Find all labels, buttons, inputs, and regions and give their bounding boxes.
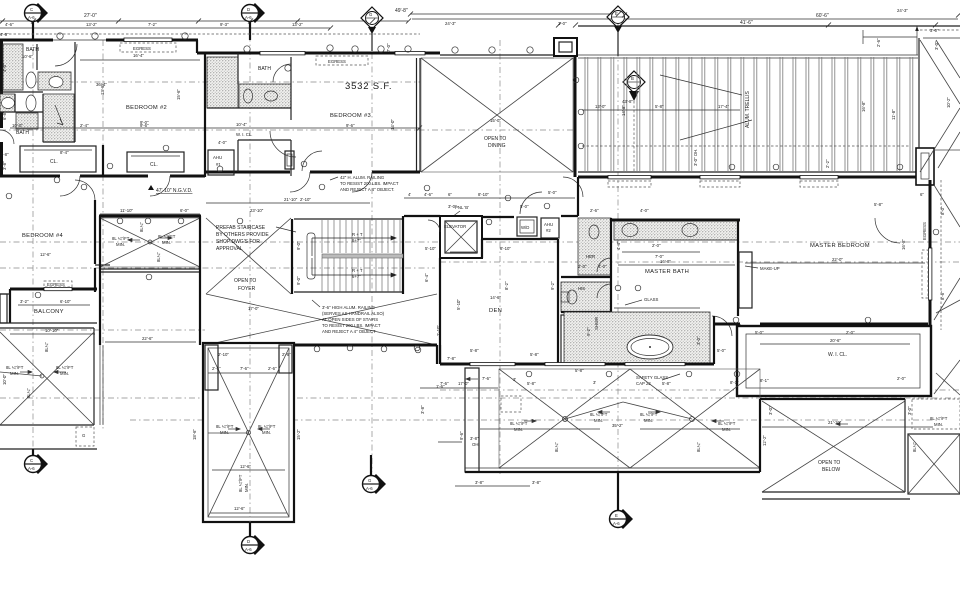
svg-text:3'-8": 3'-8" [420,405,425,414]
svg-text:3': 3' [593,380,596,385]
railing note (3'-6") [312,300,385,334]
svg-text:8L¼": 8L¼" [554,442,559,452]
svg-text:PREFAB STAIRCASE: PREFAB STAIRCASE [216,225,266,231]
dimension tick marks top [0,12,960,31]
terrace roof band X (cell 1) [499,369,760,468]
her/his dims [578,241,621,269]
svg-text:A-6: A-6 [613,521,620,526]
top exterior wall right portion (y=53) [197,52,554,59]
svg-text:3'-0": 3'-0" [558,21,567,26]
svg-text:8'-2": 8'-2" [504,281,509,290]
svg-text:2'-0": 2'-0" [897,376,906,381]
svg-text:16'-4": 16'-4" [133,53,144,58]
egress window dashed box (bedroom3) [316,56,368,65]
svg-text:9'-3": 9'-3" [220,22,229,27]
svg-text:2'-6": 2'-6" [212,366,221,371]
svg-text:36'-4": 36'-4" [96,82,107,87]
svg-text:OPEN TO: OPEN TO [484,136,506,142]
section marker diamond B (in trellis) [623,71,645,172]
door arc bath lower-left [0,130,14,144]
svg-text:2'-2": 2'-2" [825,159,830,168]
svg-text:MIN.: MIN. [934,422,943,427]
master bath floor hatch + tub [564,312,710,364]
svg-text:EGRESS: EGRESS [328,59,346,64]
svg-text:MIN.: MIN. [220,430,229,435]
svg-text:16'-8": 16'-8" [660,259,671,264]
svg-text:6'-8": 6'-8" [2,111,7,120]
svg-text:R + T: R + T [352,232,363,237]
elevator [428,216,482,258]
svg-text:4'-6": 4'-6" [5,22,14,27]
svg-text:TO RESIST 200 LBS. IMPACT: TO RESIST 200 LBS. IMPACT [340,181,399,186]
svg-text:W. I. CL.: W. I. CL. [236,132,252,137]
section marker C top [25,3,49,40]
trellis frame [578,55,918,172]
svg-text:15'-6": 15'-6" [176,89,181,100]
svg-text:41'-6": 41'-6" [740,20,753,26]
mid X-box roof over entry [99,216,201,272]
svg-text:R + T: R + T [352,268,363,273]
svg-text:EGRESS: EGRESS [133,46,151,51]
svg-text:5'-0": 5'-0" [520,204,529,209]
svg-text:8L¼": 8L¼" [912,442,917,452]
svg-text:A-6: A-6 [245,15,252,20]
left margin dims [0,32,9,385]
master bedroom door arc [875,218,900,243]
svg-text:MIN.: MIN. [10,371,19,376]
W/D [517,217,537,236]
svg-text:22'-6": 22'-6" [142,336,153,341]
svg-text:5'-0": 5'-0" [0,291,1,300]
svg-text:11'-10": 11'-10" [120,208,133,213]
svg-text:8L ¼"/FT: 8L ¼"/FT [238,474,243,492]
svg-text:20'-6": 20'-6" [830,338,841,343]
svg-text:13'-2": 13'-2" [86,22,97,27]
svg-text:APPROVAL: APPROVAL [216,246,243,252]
section marker E bottom [610,473,634,529]
svg-text:MASTER BEDROOM: MASTER BEDROOM [810,243,870,249]
svg-text:43'-8": 43'-8" [622,99,633,104]
svg-text:MIN.: MIN. [594,418,603,423]
svg-text:BATH: BATH [16,130,29,136]
svg-text:10'-10": 10'-10" [45,328,59,333]
svg-text:5'-10": 5'-10" [456,299,461,310]
dining right wall [574,57,577,177]
svg-text:BALCONY: BALCONY [34,309,64,315]
OPEN TO DINING X box [386,43,573,172]
right edge dims [920,28,951,330]
corridor dims row [404,190,575,198]
svg-text:8'-10": 8'-10" [478,192,489,197]
svg-text:MIN.: MIN. [116,242,125,247]
svg-text:8L¼": 8L¼" [26,388,31,398]
closet 2 [127,145,184,172]
svg-text:2'-0": 2'-0" [578,264,587,269]
trellis slats [585,57,913,172]
svg-text:4'-0": 4'-0" [218,140,227,145]
svg-text:13'-2": 13'-2" [292,22,303,27]
svg-text:5'-8": 5'-8" [470,348,479,353]
svg-text:SHWR: SHWR [594,317,599,330]
svg-text:1'-6": 1'-6" [436,384,445,389]
svg-text:12'-2": 12'-2" [762,435,767,446]
OPEN TO BELOW box [760,399,933,499]
svg-text:9'-2": 9'-2" [550,281,555,290]
section marker G bottom [363,455,387,494]
svg-text:9'-6": 9'-6" [459,431,464,440]
middle bath hatched [207,57,291,108]
HIS bath [561,282,611,312]
right mid diagonals (cut trellis) [934,150,960,395]
svg-text:3'-8": 3'-8" [475,480,484,485]
bath-closet door [712,316,732,336]
svg-text:8L¼": 8L¼" [156,252,161,262]
svg-text:8L ¼"/FT: 8L ¼"/FT [930,416,948,421]
svg-text:8L¼": 8L¼" [696,442,701,452]
door arc middle bath [273,64,291,82]
svg-text:22'-0": 22'-0" [832,257,843,262]
left exterior wall [0,40,3,128]
svg-text:D: D [247,7,250,12]
svg-text:9'-2": 9'-2" [586,327,591,336]
svg-text:2'-10": 2'-10" [300,197,311,202]
svg-text:23'-10": 23'-10" [250,208,264,213]
svg-text:AND REJECT A 4" OBJECT: AND REJECT A 4" OBJECT [322,329,376,334]
corridor top wall [404,215,440,217]
svg-text:5'-8": 5'-8" [874,202,883,207]
svg-text:AT OPEN SIDES OF STAIRS: AT OPEN SIDES OF STAIRS [322,317,378,322]
assorted circled tags [6,161,871,353]
svg-text:5'-0": 5'-0" [548,190,557,195]
svg-text:5'-0": 5'-0" [755,330,764,335]
svg-text:8L¼": 8L¼" [139,222,144,232]
master entry wall [577,177,579,216]
svg-text:W/D: W/D [521,225,529,230]
section marker diamond G top [361,7,383,51]
svg-text:A-6: A-6 [28,466,35,471]
svg-text:BY OTHERS PROVIDE: BY OTHERS PROVIDE [216,232,269,238]
svg-text:HIS: HIS [578,286,585,291]
svg-text:8'-10": 8'-10" [500,246,511,251]
svg-text:OPEN TO: OPEN TO [234,278,256,284]
ALUM TRELLIS label with leaders [660,75,752,140]
svg-text:2'-6": 2'-6" [876,38,881,47]
svg-text:MIN.: MIN. [244,483,249,492]
svg-text:FOYER: FOYER [238,286,256,292]
svg-text:17'-4": 17'-4" [718,104,729,109]
svg-text:5'-8": 5'-8" [527,381,536,386]
svg-text:MASTER BATH: MASTER BATH [645,269,689,275]
svg-text:BEDROOM #2: BEDROOM #2 [126,105,167,111]
top-right corner column detail [916,148,934,185]
den right wall [557,239,559,364]
MASTER BEDROOM [745,239,925,263]
svg-text:C: C [30,7,33,12]
svg-text:4'-4": 4'-4" [616,241,621,250]
svg-text:BEDROOM #4: BEDROOM #4 [22,233,63,239]
svg-text:6": 6" [920,192,924,197]
svg-text:AHU: AHU [213,155,222,160]
svg-text:8L ¼"/FT: 8L ¼"/FT [112,236,130,241]
section marker diamond E top [607,6,629,56]
svg-text:ALUM. TRELLIS: ALUM. TRELLIS [745,90,751,128]
G dashed box [0,427,97,449]
bottom dims under tall X [210,506,287,513]
svg-text:15'-0": 15'-0" [490,118,501,123]
svg-text:OH.: OH. [472,442,480,447]
svg-text:10'-2": 10'-2" [946,97,951,108]
master bedroom south wall / WICL top [714,324,928,344]
svg-text:47'-10" N.G.V.D.: 47'-10" N.G.V.D. [156,188,192,194]
svg-text:9'-0": 9'-0" [140,120,149,125]
AHU #2 [541,218,559,238]
middle bath walls [207,53,291,176]
svg-text:16'-8": 16'-8" [861,101,866,112]
svg-text:2'-6": 2'-6" [590,208,599,213]
svg-text:8L ¼"/FT: 8L ¼"/FT [510,421,528,426]
small shaft right of WICL [285,151,294,169]
svg-text:12'-6": 12'-6" [40,252,51,257]
svg-text:13'-0": 13'-0" [595,104,606,109]
svg-text:8L ¼"/FT: 8L ¼"/FT [718,421,736,426]
closet 1 [20,146,96,172]
svg-text:3'-0" OH.: 3'-0" OH. [693,149,698,166]
tiny arrows for slope labels [20,236,848,430]
svg-text:3'-2": 3'-2" [20,299,29,304]
svg-text:3'-6" HIGH ALUM. RAILING: 3'-6" HIGH ALUM. RAILING [322,305,376,310]
left bath cluster hatched walls [0,44,74,142]
svg-text:24'-3": 24'-3" [445,21,456,26]
svg-text:D: D [247,539,250,544]
corridor door arcs [520,177,583,214]
svg-text:3'-8": 3'-8" [0,152,9,157]
svg-text:A-6: A-6 [366,486,373,491]
svg-text:3'-0": 3'-0" [696,336,701,345]
svg-text:8L ¼"/FT: 8L ¼"/FT [640,412,658,417]
bench [561,315,575,363]
tall bottom X court [192,343,301,522]
hall bottom wall with posts [237,345,437,352]
svg-text:AND REJECT A 4" OBJECT.: AND REJECT A 4" OBJECT. [340,187,394,192]
svg-text:7'-2": 7'-2" [148,22,157,27]
den left wall [439,258,441,330]
prefab staircase note [216,225,296,252]
svg-text:9'-6": 9'-6" [346,123,355,128]
svg-text:HER: HER [586,254,595,259]
svg-text:8'-4": 8'-4" [60,150,69,155]
extra interior dim clusters [100,197,912,486]
bottom wall of top-left block [0,172,420,176]
svg-text:9'-0": 9'-0" [296,241,301,250]
svg-text:#2: #2 [546,228,551,233]
svg-text:8L ¼"/FT: 8L ¼"/FT [6,365,24,370]
svg-text:4': 4' [408,192,411,197]
svg-text:17'-0": 17'-0" [248,306,259,311]
svg-text:10'-6": 10'-6" [22,54,33,59]
svg-text:11'-8": 11'-8" [891,109,896,120]
svg-text:10'-4": 10'-4" [236,122,247,127]
door arc WICL [270,131,296,157]
master bath vanity strip [614,221,738,259]
svg-text:ELEVATOR: ELEVATOR [444,224,466,229]
svg-text:C: C [30,458,33,463]
svg-text:AHU: AHU [544,222,553,227]
staircase [292,216,403,294]
door arc bedroom2 top [55,44,77,66]
svg-text:2'-6": 2'-6" [282,352,291,357]
svg-text:3'-0": 3'-0" [768,406,773,415]
door arcs on bottom wall [60,172,372,196]
svg-text:5'-10": 5'-10" [425,246,436,251]
terrace roof band left edge [420,368,498,472]
svg-text:7'-0": 7'-0" [386,43,391,52]
balcony top wall with egress [10,281,97,298]
svg-text:14'-0": 14'-0" [390,119,395,130]
svg-text:2'-6": 2'-6" [268,366,277,371]
svg-text:9'-0": 9'-0" [296,276,301,285]
svg-text:14'-6": 14'-6" [490,295,501,300]
svg-text:35'-2": 35'-2" [612,423,623,428]
svg-text:4'-0": 4'-0" [598,264,607,269]
bath fixtures left [2,72,64,125]
top dimension lines [0,8,960,28]
bedroom4 [22,180,110,292]
OPEN TO FOYER X [206,218,437,345]
svg-text:DEN: DEN [489,308,502,314]
W.I.CL. small [218,132,291,172]
svg-text:8L ¼"/FT: 8L ¼"/FT [216,424,234,429]
svg-text:5'-8": 5'-8" [575,368,584,373]
svg-text:BELOW: BELOW [822,467,840,473]
wall between her/his [561,276,611,278]
W.I.CL. room [696,326,931,396]
svg-text:3'-8": 3'-8" [2,161,7,170]
svg-text:3'-0": 3'-0" [930,28,939,33]
terrace dims [480,380,740,452]
svg-text:6+7": 6+7" [352,238,361,243]
svg-text:18'-6": 18'-6" [192,429,197,440]
HER bath [578,218,611,275]
svg-text:BATH: BATH [258,66,271,72]
svg-text:3': 3' [513,377,516,382]
svg-text:8L¼": 8L¼" [44,342,49,352]
top-right diagonal trellis (cut at edge) [920,40,960,172]
centerline through court [249,345,251,522]
svg-text:EGRESS: EGRESS [47,282,65,287]
section marker D top [242,3,266,40]
right exterior wall with egress [922,180,939,326]
svg-text:CL.: CL. [50,159,58,165]
dashed service box near den bottom [501,396,521,412]
svg-text:CL.: CL. [150,162,158,168]
window circle markers on top walls [57,33,533,53]
svg-text:MIN.: MIN. [162,240,171,245]
svg-text:4'-0": 4'-0" [640,208,649,213]
svg-text:BEDROOM #3: BEDROOM #3 [330,113,371,119]
svg-text:SHOP DWG'S FOR: SHOP DWG'S FOR [216,239,260,245]
svg-text:8L ¼"/FT: 8L ¼"/FT [590,412,608,417]
left wall of middle strip [99,216,101,345]
svg-text:5'-8": 5'-8" [530,352,539,357]
NGVD benchmark [148,185,192,194]
svg-text:A-6: A-6 [28,15,35,20]
svg-text:24'-3": 24'-3" [897,8,908,13]
svg-text:A-6: A-6 [245,547,252,552]
svg-text:3'-8": 3'-8" [532,480,541,485]
svg-text:8'-1": 8'-1" [730,380,739,385]
svg-text:16'-8": 16'-8" [901,239,906,250]
svg-text:2'-10": 2'-10" [436,325,441,336]
svg-text:15'-2": 15'-2" [296,429,301,440]
left bath walls [0,42,75,142]
svg-text:2'-0": 2'-0" [652,243,661,248]
svg-text:W. I. CL.: W. I. CL. [828,352,847,358]
svg-text:6+7": 6+7" [352,274,361,279]
corner dim detail top-right [863,26,919,55]
top exterior wall left portion [0,38,198,53]
svg-text:2'-4": 2'-4" [80,123,89,128]
svg-text:EGRESS: EGRESS [922,222,927,240]
terrace posts [526,371,740,377]
svg-text:E: E [615,513,618,518]
svg-text:3'-0": 3'-0" [934,41,939,50]
svg-text:27'-0": 27'-0" [84,13,97,19]
svg-text:3'-0": 3'-0" [907,406,912,415]
svg-text:3532 S.F.: 3532 S.F. [345,81,392,92]
svg-text:4'-6": 4'-6" [424,192,433,197]
wall x=103 [102,145,104,176]
svg-text:OPEN TO: OPEN TO [818,460,840,466]
svg-text:17'-0": 17'-0" [458,381,469,386]
svg-text:5'-0": 5'-0" [717,348,726,353]
section marker C bottom [25,449,49,474]
svg-text:42" H. ALUM. RAILING: 42" H. ALUM. RAILING [340,175,385,180]
svg-text:8L ¼"/FT: 8L ¼"/FT [56,365,74,370]
svg-text:PNL 'B': PNL 'B' [455,205,469,210]
svg-text:6'-10": 6'-10" [60,299,71,304]
svg-text:4'-0": 4'-0" [2,63,7,72]
window dashed boxes under trellis wall [608,181,651,187]
balcony [0,289,97,334]
svg-text:21'-10": 21'-10" [284,197,298,202]
svg-text:7'-6": 7'-6" [482,376,491,381]
svg-text:MIN.: MIN. [262,430,271,435]
svg-text:BATH: BATH [26,47,39,53]
svg-text:TO RESIST 200 LBS. IMPACT: TO RESIST 200 LBS. IMPACT [322,323,381,328]
svg-text:MIN.: MIN. [514,427,523,432]
egress window dashed box (left) [120,43,176,52]
svg-text:2'-0": 2'-0" [846,330,855,335]
glass note [614,297,700,308]
terrace band bottom wall [465,468,760,472]
AHU #1 [208,150,234,175]
svg-text:MAKE-UP: MAKE-UP [760,266,780,271]
misc small dims middle [424,273,906,415]
svg-text:5'-8": 5'-8" [662,381,671,386]
dashed overhang bottom-left of master suite [436,345,438,364]
svg-text:MIN.: MIN. [644,418,653,423]
svg-text:6'-0": 6'-0" [180,208,189,213]
right bottom X strip [908,399,960,494]
master bath bottom wall [440,363,714,366]
svg-text:MIN.: MIN. [722,427,731,432]
bottom-left roof X box [0,328,94,425]
trellis bottom wall (master suite top) [578,176,928,179]
bedroom2 right wall [204,53,206,118]
svg-text:49'-8": 49'-8" [395,8,408,14]
trellis mid dashed line [582,145,910,147]
svg-text:8'-1": 8'-1" [760,378,769,383]
